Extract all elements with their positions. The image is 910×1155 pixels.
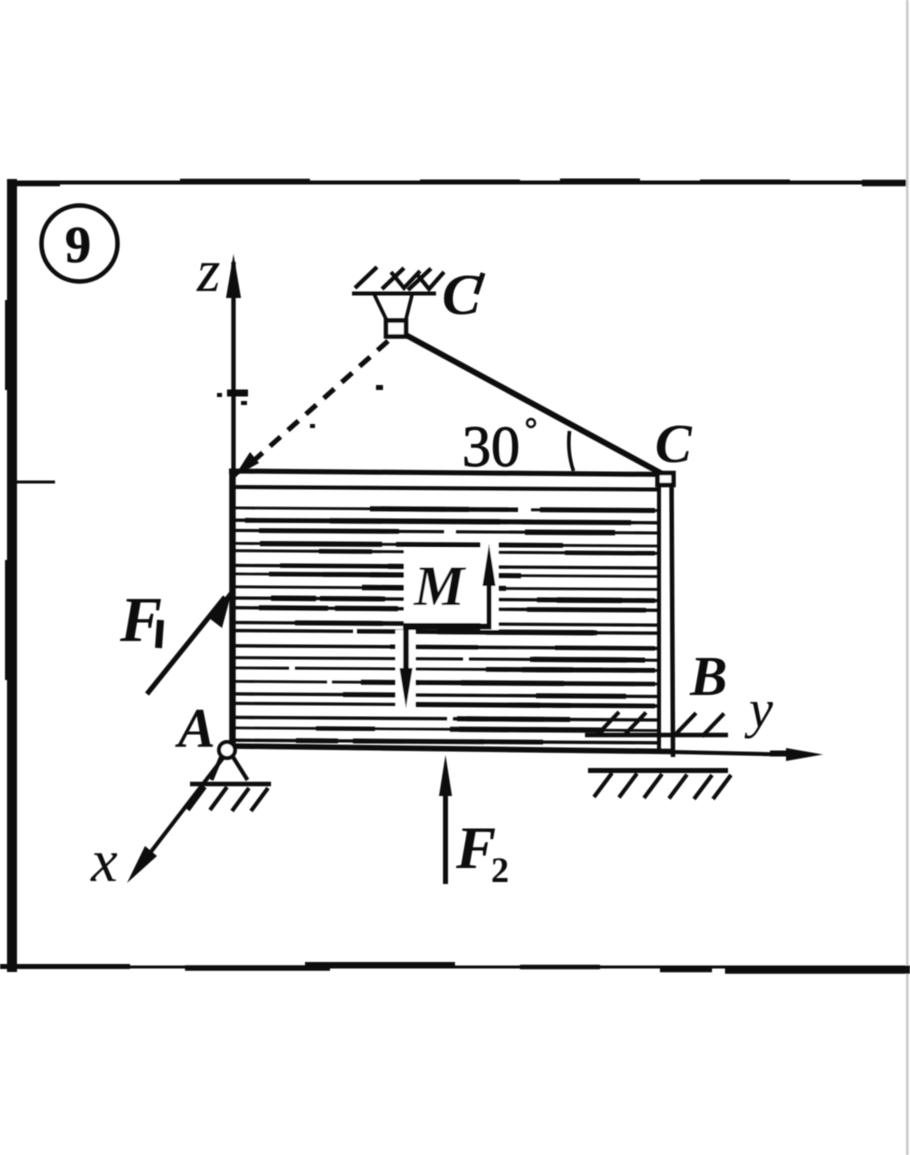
support at B: lower ground line [588, 768, 728, 773]
svg-text:y: y [744, 679, 773, 739]
force F2 arrow [443, 792, 448, 884]
stray tick on z axis [227, 390, 248, 397]
support C' hatch stroke 3 [408, 269, 431, 291]
moment couple: cross bar [404, 624, 492, 630]
support C' hatch stroke 2 [382, 268, 404, 289]
force F1 arrow [147, 597, 225, 694]
support C' hatching wall: horizontal line [352, 292, 436, 296]
support at B: upper hatched line [585, 733, 728, 738]
svg-text:M: M [413, 555, 467, 618]
tick on left border [16, 481, 55, 484]
plate top edge (inner) [232, 487, 659, 490]
frame left border [5, 179, 17, 972]
axis x shaft [140, 758, 223, 866]
support C' trapezoid bracket [375, 295, 388, 321]
plate hatching [233, 508, 657, 743]
plate right edge outer (rod to B) [672, 473, 674, 757]
svg-text:2: 2 [491, 850, 509, 890]
corner square at C [658, 473, 674, 485]
support at B: lower hatches [594, 773, 612, 797]
svg-text:C: C [442, 262, 482, 327]
pin support at A: triangle legs [212, 757, 222, 780]
svg-text:A: A [175, 698, 215, 760]
svg-text:x: x [90, 828, 118, 894]
svg-text:9: 9 [65, 217, 91, 274]
svg-text:C: C [655, 413, 693, 474]
svg-text:z: z [196, 238, 220, 304]
right page edge (faint scan edge) [906, 0, 909, 1155]
dashed line arrowhead at corner [234, 452, 259, 477]
circled figure number 9 [42, 206, 118, 282]
svg-text:30: 30 [462, 414, 520, 479]
svg-text:B: B [689, 646, 727, 708]
axis x arrowhead [127, 846, 157, 883]
angle arc at C [569, 431, 574, 471]
white backing for moment label M [404, 548, 485, 623]
plate top edge (outer) [229, 471, 674, 475]
pin support at A: circle [219, 742, 235, 758]
axis z: shaft [231, 262, 235, 750]
axis z: arrowhead [226, 254, 241, 298]
plate right edge inner [657, 477, 661, 750]
support C' hatch stroke 1 [355, 267, 377, 288]
support C' chevron 1 [391, 271, 420, 288]
white backing for moment down arrow [396, 630, 416, 710]
support C' pivot square [386, 321, 406, 337]
pin support at A: ground line [190, 782, 271, 787]
rope C'C [404, 334, 668, 477]
support C' chevron 2 [416, 272, 444, 289]
plate left edge [229, 470, 234, 750]
frame bottom border [0, 965, 910, 971]
axis y shaft [672, 752, 786, 755]
stray dot near dashed line [376, 385, 383, 390]
frame top border [8, 181, 906, 184]
plate bottom edge [228, 746, 672, 752]
moment couple: down arrow [403, 626, 409, 674]
white backing for moment up arrow [481, 537, 499, 630]
dashed guy line C' to plate corner [250, 341, 388, 464]
svg-text:F: F [455, 815, 496, 881]
pin support at A: hatching [188, 787, 205, 810]
moment couple: up arrow [487, 584, 492, 628]
support at B: upper hatches [597, 712, 619, 735]
axis y arrowhead [786, 748, 823, 761]
